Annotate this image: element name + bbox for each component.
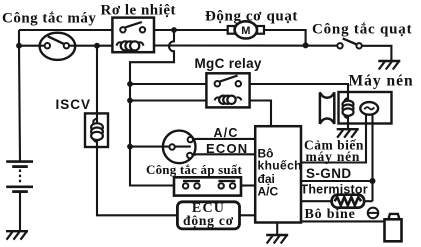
svg-text:S-GND: S-GND [306, 166, 352, 181]
wire fan motor output corner down [264, 30, 306, 45]
junction node ignition output / ISCV branch [94, 43, 100, 49]
wire to MgC relay switch [130, 83, 206, 85]
ISCV box [85, 113, 108, 147]
wire S-GND from amplifier [301, 180, 373, 182]
wire ISCV branch vertical down to ECU [97, 46, 177, 216]
wire hop vertical from relay output junction [130, 30, 174, 186]
svg-text:Công tắc áp suất: Công tắc áp suất [146, 162, 242, 177]
wire left vertical battery feed [19, 30, 20, 161]
thermal relay box [112, 18, 154, 53]
MgC relay box [206, 73, 249, 107]
thermal relay heater coil [117, 41, 144, 50]
svg-text:Động cơ quạt: Động cơ quạt [205, 8, 298, 24]
wire bobine line from amplifier bottom corner to coil canister [301, 220, 385, 222]
wire sensor right lead down to thermistor [371, 115, 373, 202]
wire battery to ground stem [19, 193, 21, 231]
svg-text:M: M [241, 25, 250, 37]
compressor clutch coil [343, 98, 354, 118]
wire fan switch output to right ground [362, 46, 392, 61]
ignition switch SW1 circle [40, 33, 76, 60]
wire ignition switch output to thermal relay coil [69, 45, 113, 47]
wire to MgC relay coil [130, 99, 206, 101]
svg-text:A/C: A/C [258, 184, 279, 198]
junction node relay switch output branch [171, 27, 177, 33]
wire sensor left lead to amplifier right side [301, 115, 366, 163]
wire pressure switch output to amplifier [241, 184, 255, 186]
wire thermal relay switch output to fan motor [154, 29, 228, 31]
wire MgC coil output down to amplifier top [250, 101, 271, 127]
ground at compressor coil [337, 129, 359, 138]
wire MgC switch output to compressor clutch coil [250, 84, 348, 102]
wire ECON contact to amplifier [191, 154, 255, 155]
svg-text:máy nén: máy nén [306, 149, 361, 164]
ground at fan switch [378, 61, 400, 70]
ground at battery [6, 231, 28, 240]
compressor speed sensor [360, 102, 378, 115]
wire to AC-ECON switch common [130, 146, 191, 148]
svg-text:khuếch: khuếch [258, 158, 302, 172]
svg-text:Bô bine: Bô bine [305, 207, 356, 222]
ground at amplifier [266, 235, 288, 244]
A/C amplifier box [255, 126, 301, 222]
svg-text:ISCV: ISCV [56, 97, 92, 112]
ECU engine box [177, 202, 239, 229]
fan switch [337, 38, 362, 48]
ISCV solenoid coil [91, 119, 103, 143]
svg-text:Máy nén: Máy nén [349, 73, 414, 90]
battery [6, 162, 33, 192]
fan motor M [228, 21, 264, 38]
wire thermal relay coil output across to fan switch [154, 44, 338, 46]
wire top bus from battery line to thermal relay switch input [19, 29, 112, 31]
compressor pulley [320, 92, 334, 124]
wire thermistor left lead [301, 200, 333, 202]
junction node MgC switch branch [127, 81, 133, 87]
wire A/C contact to amplifier [192, 138, 256, 141]
junction node at battery feed and ignition input [16, 43, 22, 49]
wire ignition switch input [19, 45, 46, 47]
thermistor element [332, 195, 364, 208]
svg-text:MgC relay: MgC relay [195, 56, 262, 71]
svg-text:A/C: A/C [214, 126, 239, 140]
compressor box [339, 92, 392, 124]
junction node S-GND / sensor lead [370, 178, 376, 184]
pressure switch box [174, 177, 241, 195]
wire amplifier ground stem [276, 223, 278, 235]
svg-text:Công tắc quạt: Công tắc quạt [312, 21, 412, 37]
svg-text:Công tắc máy: Công tắc máy [2, 11, 96, 27]
junction node fan motor return / fan switch [303, 42, 309, 48]
junction node ECON branch [127, 144, 133, 150]
A/C ECON selector switch [163, 131, 196, 164]
junction node MgC coil branch [127, 98, 133, 104]
wire thermistor right lead [363, 200, 373, 202]
MgC relay coil [215, 96, 242, 104]
svg-text:Rơ le nhiệt: Rơ le nhiệt [101, 3, 176, 19]
svg-text:ECON: ECON [206, 141, 248, 156]
minus terminal symbol [368, 208, 379, 219]
wire compressor clutch coil to ground [347, 114, 349, 129]
svg-text:động cơ: động cơ [183, 213, 234, 228]
wire ECU output to amplifier [240, 214, 256, 216]
ignition coil canister [385, 214, 402, 241]
